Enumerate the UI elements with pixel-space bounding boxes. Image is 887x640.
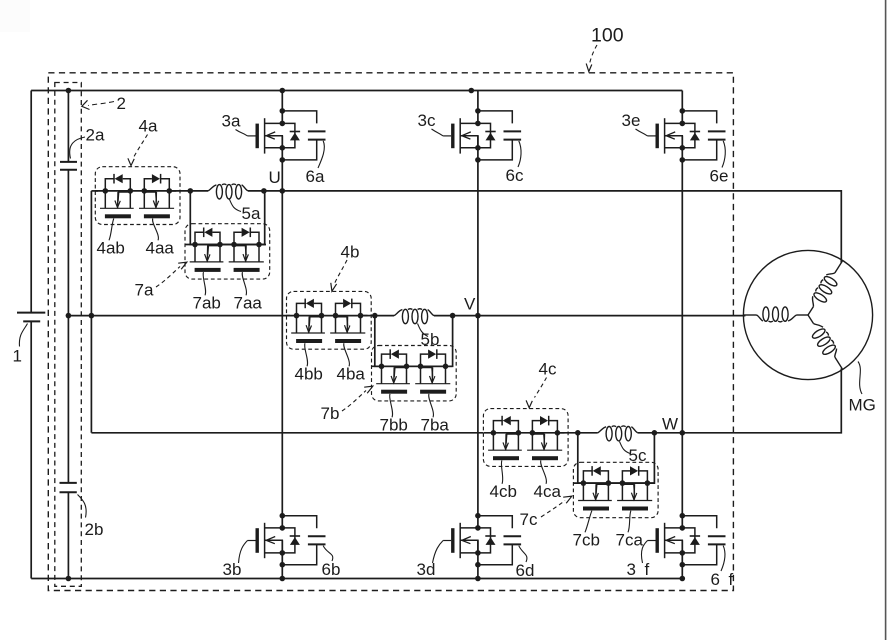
transistor 3d — [443, 513, 496, 568]
wire: midpoint vertical — [90, 191, 92, 433]
leader arrow for 100 — [590, 45, 598, 64]
junction: midpoint vertical at V branch — [89, 313, 95, 319]
wire: U rail to motor — [282, 191, 841, 263]
gate bar 7cb — [583, 507, 609, 511]
motor-generator MG (stator circle) — [743, 250, 872, 379]
svg-text:5a: 5a — [242, 204, 261, 223]
gate bar 7ca — [622, 507, 648, 511]
wire: U branch from midpoint — [91, 190, 98, 192]
junction: leg B at - rail — [475, 576, 481, 582]
switch 4aa — [142, 174, 173, 208]
capacitor 6b — [282, 516, 325, 565]
svg-text:W: W — [662, 415, 678, 434]
wire: 5b to V node — [434, 315, 478, 317]
wire: 4b to 5b — [375, 315, 394, 317]
capacitor 6a — [282, 111, 325, 160]
svg-text:3c: 3c — [418, 111, 436, 130]
wire: 7a left riser — [190, 191, 195, 245]
capacitor 6 f — [682, 516, 725, 565]
svg-text:MG: MG — [849, 396, 876, 415]
leader line 2a — [70, 137, 85, 159]
leader line 2b — [78, 495, 87, 518]
gate bar 4ca — [532, 456, 558, 460]
wire: 7c right riser — [647, 433, 654, 483]
svg-text:4aa: 4aa — [146, 239, 175, 258]
svg-text:4ca: 4ca — [534, 482, 562, 501]
wire: 5c to W node — [638, 432, 683, 434]
svg-text:4b: 4b — [341, 243, 360, 262]
wire: cap branch lower — [67, 492, 69, 578]
leader arrow for 7b — [342, 391, 366, 412]
svg-text:7ca: 7ca — [616, 531, 644, 550]
wire: 7c wire — [583, 482, 647, 484]
wire: cap branch upper — [67, 91, 69, 162]
leader line 5b — [418, 324, 429, 337]
leader line 4bb — [305, 343, 308, 366]
MG coil V phase — [743, 307, 808, 322]
wire: 7b wire — [382, 365, 446, 367]
leader line 6c — [518, 141, 521, 167]
svg-text:7cb: 7cb — [573, 531, 600, 550]
leader line 7bb — [390, 394, 393, 417]
dashed box 4b — [287, 291, 372, 349]
wire: 4c box internal — [557, 432, 577, 434]
wire: 7b left riser — [375, 316, 382, 367]
channel lines 7c — [578, 500, 612, 502]
gate bar 7ab — [195, 268, 221, 272]
dashed box 7b — [372, 346, 457, 401]
capacitor 6d — [478, 516, 521, 565]
leader line 6 f — [721, 546, 725, 571]
switch 7ab — [192, 228, 223, 262]
wire: 7a wire — [195, 244, 259, 246]
switch 7aa — [231, 228, 262, 262]
svg-text:6c: 6c — [506, 166, 524, 185]
wire: 4a box internal — [169, 190, 190, 192]
wire: battery to + rail — [30, 91, 32, 313]
svg-text:6b: 6b — [322, 560, 341, 579]
svg-text:2a: 2a — [86, 126, 105, 145]
svg-text:2: 2 — [117, 94, 126, 113]
leader line 6a — [318, 141, 324, 168]
leader line 4cb — [501, 460, 502, 483]
svg-text:4a: 4a — [139, 117, 158, 136]
junction: leg A at - rail — [280, 576, 286, 582]
junction: 4b output — [372, 313, 378, 319]
wire: 4a to 5a — [190, 190, 208, 192]
wire: midpoint to V branch — [68, 315, 290, 317]
wire: leg A upper — [281, 91, 283, 124]
switch 7ca — [620, 466, 651, 500]
svg-text:3a: 3a — [222, 112, 241, 131]
leader line MG — [858, 362, 862, 395]
wire: 7a right riser — [259, 191, 265, 245]
junction: 5c output — [652, 430, 658, 436]
svg-text:4ab: 4ab — [97, 239, 125, 258]
gate bar 4aa — [144, 214, 170, 218]
junction: 5a output — [261, 188, 267, 194]
wire: leg B to lower cell — [477, 316, 479, 528]
wire through 7b — [372, 365, 453, 367]
wire: leg B upper — [477, 91, 479, 124]
leader line 4ab — [109, 219, 114, 241]
leader arrow for 4a — [134, 135, 148, 158]
wire: 5a to U node — [248, 190, 282, 192]
switch 4ab — [103, 174, 134, 208]
svg-text:7a: 7a — [135, 281, 154, 300]
svg-text:7bb: 7bb — [380, 416, 408, 435]
inductor 5b — [394, 309, 434, 316]
capacitor 2b — [60, 482, 77, 484]
svg-text:3 f: 3 f — [627, 560, 652, 579]
junction: 4a output — [188, 188, 194, 194]
switch 4cb — [491, 416, 522, 450]
leader line 3 f — [641, 541, 647, 564]
wire through 4a — [95, 190, 176, 192]
node W — [680, 430, 686, 436]
inductor 5a — [208, 184, 248, 191]
wire: leg B bottom — [477, 540, 479, 578]
gate bar 4cb — [493, 456, 519, 460]
svg-text:7c: 7c — [520, 510, 538, 529]
junction: cap branch on + rail — [66, 88, 72, 94]
leader line 6b — [323, 546, 333, 561]
switch 4bb — [294, 299, 325, 333]
junction: leg C at - rail — [680, 576, 686, 582]
gate bar 7aa — [234, 268, 260, 272]
leader line 6e — [722, 141, 725, 168]
leader arrow for 7a — [156, 267, 180, 288]
gate bar 4ab — [105, 214, 131, 218]
channel lines 4a — [100, 207, 134, 209]
channel lines 4c — [488, 449, 522, 451]
channel lines 4b — [291, 332, 325, 334]
svg-text:4cb: 4cb — [490, 482, 517, 501]
wire: leg A mid — [281, 136, 283, 191]
MG coil W phase — [801, 311, 848, 373]
wire: W rail to motor — [682, 369, 841, 433]
leader line 3c — [432, 129, 444, 136]
transistor 3c — [443, 108, 496, 163]
converter unit 100 (dashed outline) — [48, 73, 733, 591]
wire: leg C upper — [681, 91, 683, 124]
node V — [475, 313, 481, 319]
leader line 3d — [433, 541, 444, 564]
wire: leg A bottom — [281, 540, 283, 578]
leader line 7ab — [203, 272, 206, 295]
wire through 4b — [287, 315, 368, 317]
wire: negative rail — [31, 578, 682, 580]
leader line 7ca — [628, 511, 631, 533]
dashed box 7c — [573, 462, 658, 517]
junction: cap branch on - rail — [66, 576, 72, 582]
wire through 7a — [185, 244, 266, 246]
svg-text:1: 1 — [13, 347, 22, 366]
channel lines 7a — [190, 261, 224, 263]
junction: leg B at + rail — [469, 88, 475, 94]
svg-text:U: U — [269, 168, 281, 187]
switch 7cb — [581, 466, 612, 500]
gate bar 4ba — [335, 339, 361, 343]
wire: 4b box internal — [360, 315, 374, 317]
junction: leg A at + rail — [280, 88, 286, 94]
leader line 1 — [19, 324, 27, 347]
junction: 4c output — [575, 430, 581, 436]
leader arrow for 4c — [535, 378, 547, 398]
svg-text:3e: 3e — [622, 111, 641, 130]
leader line 4ba — [344, 343, 350, 366]
capacitor 6c — [478, 111, 521, 160]
svg-text:5c: 5c — [629, 446, 647, 465]
leader arrow for 7c — [541, 501, 565, 518]
wire: 7c left riser — [578, 433, 584, 483]
capacitor 2a — [60, 161, 77, 163]
dashed box 4a — [95, 167, 180, 225]
svg-text:4bb: 4bb — [295, 365, 323, 384]
wire: leg B mid — [477, 136, 479, 316]
capacitor 6e — [682, 111, 725, 160]
leader line 5a — [230, 200, 242, 212]
wire: W branch horizontal — [91, 432, 483, 434]
leader line 3e — [636, 129, 648, 136]
transistor 3b — [248, 513, 301, 568]
switch 7bb — [379, 349, 410, 383]
switch 7ba — [418, 349, 449, 383]
wire: leg C bottom — [681, 540, 683, 578]
gate bar 7ba — [420, 390, 446, 394]
wire: battery to - rail — [30, 321, 32, 578]
leader line 3b — [239, 541, 248, 564]
battery 1 — [17, 312, 45, 314]
svg-text:2b: 2b — [85, 520, 104, 539]
dashed box 2 (capacitor module) — [55, 83, 82, 587]
leader line 4ca — [541, 460, 547, 483]
svg-text:6 f: 6 f — [711, 570, 736, 589]
transistor 3a — [248, 108, 301, 163]
leader line 4aa — [153, 219, 159, 241]
leader line 7cb — [585, 511, 592, 533]
svg-text:4c: 4c — [539, 360, 557, 379]
transistor 3 f — [648, 513, 701, 568]
leader line 7aa — [242, 272, 246, 295]
switch 4ba — [333, 299, 364, 333]
wire: 7b right riser — [445, 316, 452, 367]
wire through 7c — [573, 482, 654, 484]
svg-text:7b: 7b — [321, 404, 340, 423]
leader line 7ba — [429, 394, 434, 417]
leader arrow for 4b — [335, 260, 348, 284]
transistor 3e — [648, 108, 701, 163]
dashed box 7a — [185, 224, 270, 279]
leader line 5c — [620, 442, 631, 454]
node U — [280, 188, 286, 194]
svg-text:6e: 6e — [710, 167, 729, 186]
MG coil U phase — [802, 257, 849, 319]
channel lines 7b — [376, 383, 410, 385]
svg-text:4ba: 4ba — [337, 365, 366, 384]
svg-text:V: V — [464, 295, 476, 314]
wire: V rail to motor — [478, 315, 746, 317]
svg-text:6d: 6d — [516, 561, 535, 580]
wire: 4c to 5c — [578, 432, 598, 434]
switch 4ca — [530, 416, 561, 450]
leader arrow for 2 — [88, 102, 114, 106]
leader line 3a — [236, 130, 248, 136]
wire: leg C to lower cell — [681, 433, 683, 528]
gate bar 4bb — [296, 339, 322, 343]
svg-text:7ba: 7ba — [421, 416, 450, 435]
inductor 5c — [598, 426, 638, 433]
wire: leg C mid — [681, 136, 683, 433]
wire: cap branch middle — [67, 170, 69, 483]
svg-text:7ab: 7ab — [193, 294, 221, 313]
wire through 4c — [483, 432, 564, 434]
leader line 6d — [519, 546, 527, 562]
svg-text:7aa: 7aa — [234, 294, 263, 313]
svg-text:6a: 6a — [306, 167, 325, 186]
wire: positive rail — [31, 90, 682, 92]
junction: midpoint at capacitors — [66, 313, 72, 319]
dashed box 4c — [483, 409, 568, 467]
wire: leg A to lower cell — [281, 191, 283, 528]
junction: 5b output — [450, 313, 456, 319]
svg-text:100: 100 — [591, 25, 624, 47]
gate bar 7bb — [381, 390, 407, 394]
